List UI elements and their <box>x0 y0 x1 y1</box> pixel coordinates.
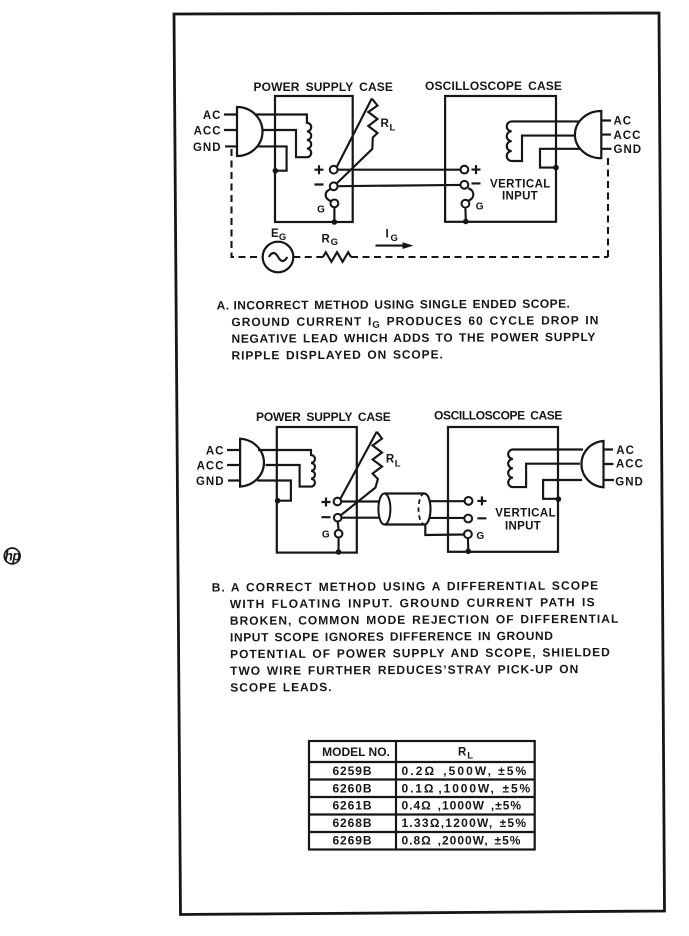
svg-text:G: G <box>391 233 398 244</box>
svg-text:G: G <box>331 237 338 248</box>
svg-text:WITH FLOATING INPUT. GROUND CU: WITH FLOATING INPUT. GROUND CURRENT PATH… <box>230 595 596 611</box>
svg-text:RIPPLE DISPLAYED ON SCOPE.: RIPPLE DISPLAYED ON SCOPE. <box>231 347 443 362</box>
svg-text:ACC: ACC <box>197 460 225 472</box>
svg-text:hp: hp <box>5 549 21 564</box>
svg-text:R: R <box>381 118 390 130</box>
svg-text:I: I <box>386 229 390 241</box>
svg-text:L: L <box>467 751 473 762</box>
svg-text:VERTICAL: VERTICAL <box>495 508 556 520</box>
svg-text:ACC: ACC <box>194 126 222 138</box>
svg-text:ACC: ACC <box>616 459 644 471</box>
svg-text:L: L <box>395 458 401 469</box>
svg-text:GND: GND <box>193 142 222 154</box>
svg-text:GND: GND <box>614 144 643 156</box>
svg-text:INPUT SCOPE IGNORES DIFFERENCE: INPUT SCOPE IGNORES DIFFERENCE IN GROUND <box>230 629 554 645</box>
svg-text:G: G <box>476 531 484 542</box>
svg-text:POWER SUPPLY CASE: POWER SUPPLY CASE <box>256 410 391 424</box>
svg-text:SCOPE LEADS.: SCOPE LEADS. <box>230 680 332 695</box>
svg-text:OSCILLOSCOPE CASE: OSCILLOSCOPE CASE <box>425 79 562 93</box>
svg-text:L: L <box>390 123 396 134</box>
svg-text:G: G <box>322 529 330 540</box>
svg-text:MODEL NO.: MODEL NO. <box>322 745 390 759</box>
svg-text:0.4Ω ,1000W ,±5%: 0.4Ω ,1000W ,±5% <box>402 798 523 812</box>
svg-text:0.1Ω,1000W, ±5%: 0.1Ω,1000W, ±5% <box>402 781 533 795</box>
svg-text:OSCILLOSCOPE CASE: OSCILLOSCOPE CASE <box>434 409 562 423</box>
svg-text:R: R <box>322 233 331 245</box>
svg-text:AC: AC <box>203 110 222 122</box>
svg-text:AC: AC <box>616 445 635 457</box>
svg-text:POWER SUPPLY CASE: POWER SUPPLY CASE <box>254 80 394 94</box>
svg-text:0.8Ω ,2000W, ±5%: 0.8Ω ,2000W, ±5% <box>402 834 522 848</box>
svg-text:6268B: 6268B <box>332 816 372 830</box>
svg-text:6260B: 6260B <box>332 781 372 795</box>
svg-text:INPUT: INPUT <box>502 191 538 203</box>
svg-text:INPUT: INPUT <box>505 521 541 533</box>
svg-text:6261B: 6261B <box>332 798 372 812</box>
svg-text:6269B: 6269B <box>332 834 372 848</box>
svg-text:GND: GND <box>196 476 225 488</box>
svg-text:G: G <box>279 232 286 243</box>
svg-text:0.2Ω ,500W,±5%: 0.2Ω ,500W,±5% <box>402 764 529 778</box>
svg-text:GND: GND <box>615 477 644 489</box>
svg-text:ACC: ACC <box>614 130 642 142</box>
svg-text:POTENTIAL OF POWER SUPPLY AND: POTENTIAL OF POWER SUPPLY AND SCOPE, SHI… <box>230 645 611 661</box>
svg-text:6259B: 6259B <box>332 764 372 778</box>
svg-text:AC: AC <box>614 116 633 128</box>
svg-text:A.INCORRECT METHOD USING SINGL: A.INCORRECT METHOD USING SINGLE ENDED SC… <box>217 297 571 313</box>
svg-text:GROUND CURRENT IG PRODUCES 60: GROUND CURRENT IG PRODUCES 60 CYCLE DROP… <box>231 313 599 331</box>
svg-text:G: G <box>317 204 325 215</box>
svg-text:BROKEN, COMMON MODE REJECTION: BROKEN, COMMON MODE REJECTION OF DIFFERE… <box>230 612 619 628</box>
svg-text:TWO WIRE FURTHER REDUCES’STRAY: TWO WIRE FURTHER REDUCES’STRAY PICK-UP O… <box>230 662 579 678</box>
svg-text:B.A CORRECT METHOD USING A DIF: B.A CORRECT METHOD USING A DIFFERENTIAL … <box>212 578 600 594</box>
svg-text:G: G <box>476 202 484 213</box>
svg-text:AC: AC <box>206 445 225 457</box>
svg-text:VERTICAL: VERTICAL <box>490 179 551 191</box>
svg-text:1.33Ω,1200W, ±5%: 1.33Ω,1200W, ±5% <box>402 816 528 830</box>
svg-text:NEGATIVE LEAD WHICH ADDS TO TH: NEGATIVE LEAD WHICH ADDS TO THE POWER SU… <box>231 330 596 346</box>
svg-text:R: R <box>458 747 467 759</box>
